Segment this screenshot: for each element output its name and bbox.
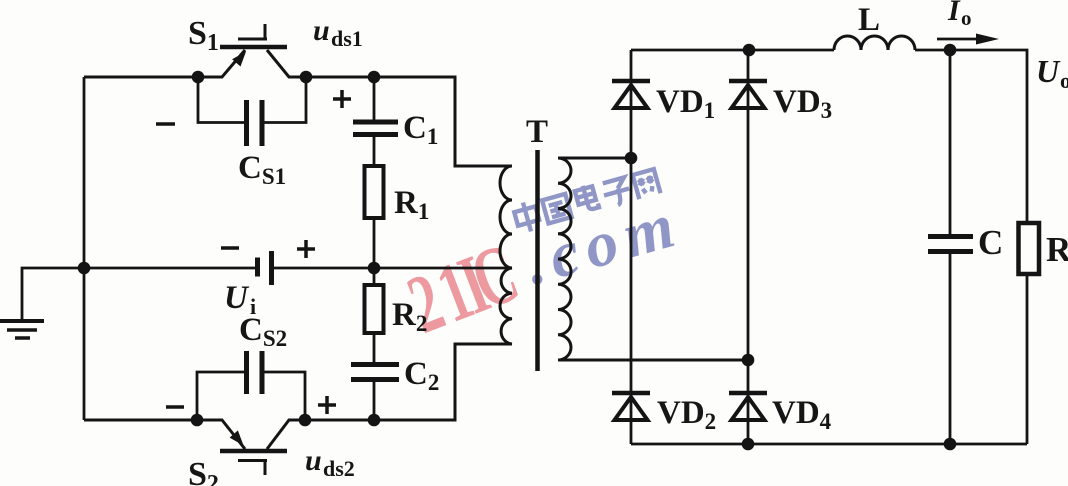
svg-text:o: o — [961, 6, 972, 30]
svg-text:R: R — [1046, 230, 1068, 269]
svg-text:I: I — [947, 0, 961, 27]
svg-text:U: U — [224, 280, 250, 316]
svg-text:u: u — [313, 14, 330, 47]
svg-text:C: C — [978, 223, 1003, 262]
svg-text:U: U — [1036, 53, 1061, 89]
svg-text:L: L — [858, 2, 880, 38]
svg-text:ds2: ds2 — [323, 456, 355, 481]
svg-text:ds1: ds1 — [331, 26, 363, 51]
svg-text:u: u — [305, 444, 322, 477]
svg-text:T: T — [526, 114, 548, 150]
svg-text:o: o — [1060, 68, 1068, 93]
